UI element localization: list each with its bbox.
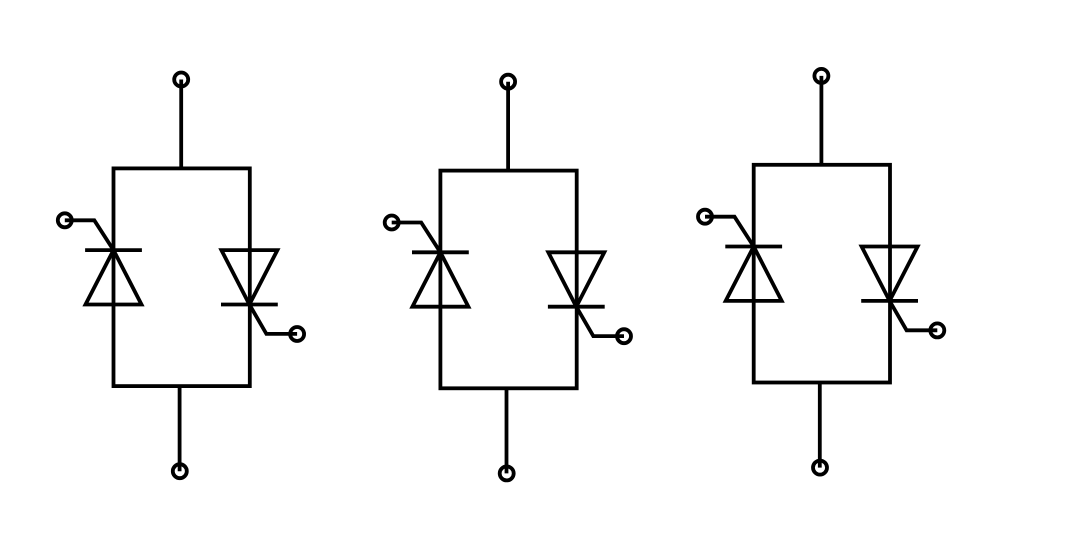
gate wire of V2.2: [576, 307, 624, 336]
wire: loop to bottom terminal: [818, 383, 822, 468]
terminal K3 (bottom): [813, 461, 827, 475]
gate wire of V3.1: [705, 217, 754, 247]
gate terminal G1.2: [290, 327, 304, 341]
terminal A2 (top): [501, 75, 515, 89]
wire loop rectangle: [440, 171, 576, 389]
module 3: anti-parallel thyristor pair: [698, 69, 944, 475]
thyristor V3.2 (right arm, pointing down): [861, 247, 918, 301]
wire: loop to bottom terminal: [505, 388, 509, 473]
wire loop rectangle: [754, 165, 890, 383]
gate wire of V2.1: [392, 223, 441, 253]
gate terminal G1.1: [58, 213, 72, 227]
gate wire of V1.1: [65, 220, 114, 250]
terminal K1 (bottom): [173, 464, 187, 478]
gate terminal G3.1: [698, 210, 712, 224]
wire: top terminal to loop: [179, 80, 183, 169]
wire: loop to bottom terminal: [178, 386, 182, 471]
gate terminal G3.2: [930, 323, 944, 337]
wire: top terminal to loop: [506, 82, 510, 171]
thyristor V1.1 (left arm, pointing up): [85, 250, 142, 304]
terminal A1 (top): [174, 73, 188, 87]
thyristor V2.2 (right arm, pointing down): [548, 252, 605, 306]
wire loop rectangle: [114, 168, 250, 386]
thyristor V1.2 (right arm, pointing down): [221, 250, 278, 304]
terminal A3 (top): [814, 69, 828, 83]
thyristor V2.1 (left arm, pointing up): [412, 252, 469, 306]
gate terminal G2.1: [385, 216, 399, 230]
wire: top terminal to loop: [820, 76, 824, 165]
gate wire of V3.2: [890, 301, 938, 330]
module 1: anti-parallel thyristor pair: [58, 73, 304, 479]
gate wire of V1.2: [249, 305, 297, 334]
module 2: anti-parallel thyristor pair: [385, 75, 631, 481]
gate terminal G2.2: [617, 329, 631, 343]
terminal K2 (bottom): [500, 466, 514, 480]
thyristor V3.1 (left arm, pointing up): [725, 247, 782, 301]
